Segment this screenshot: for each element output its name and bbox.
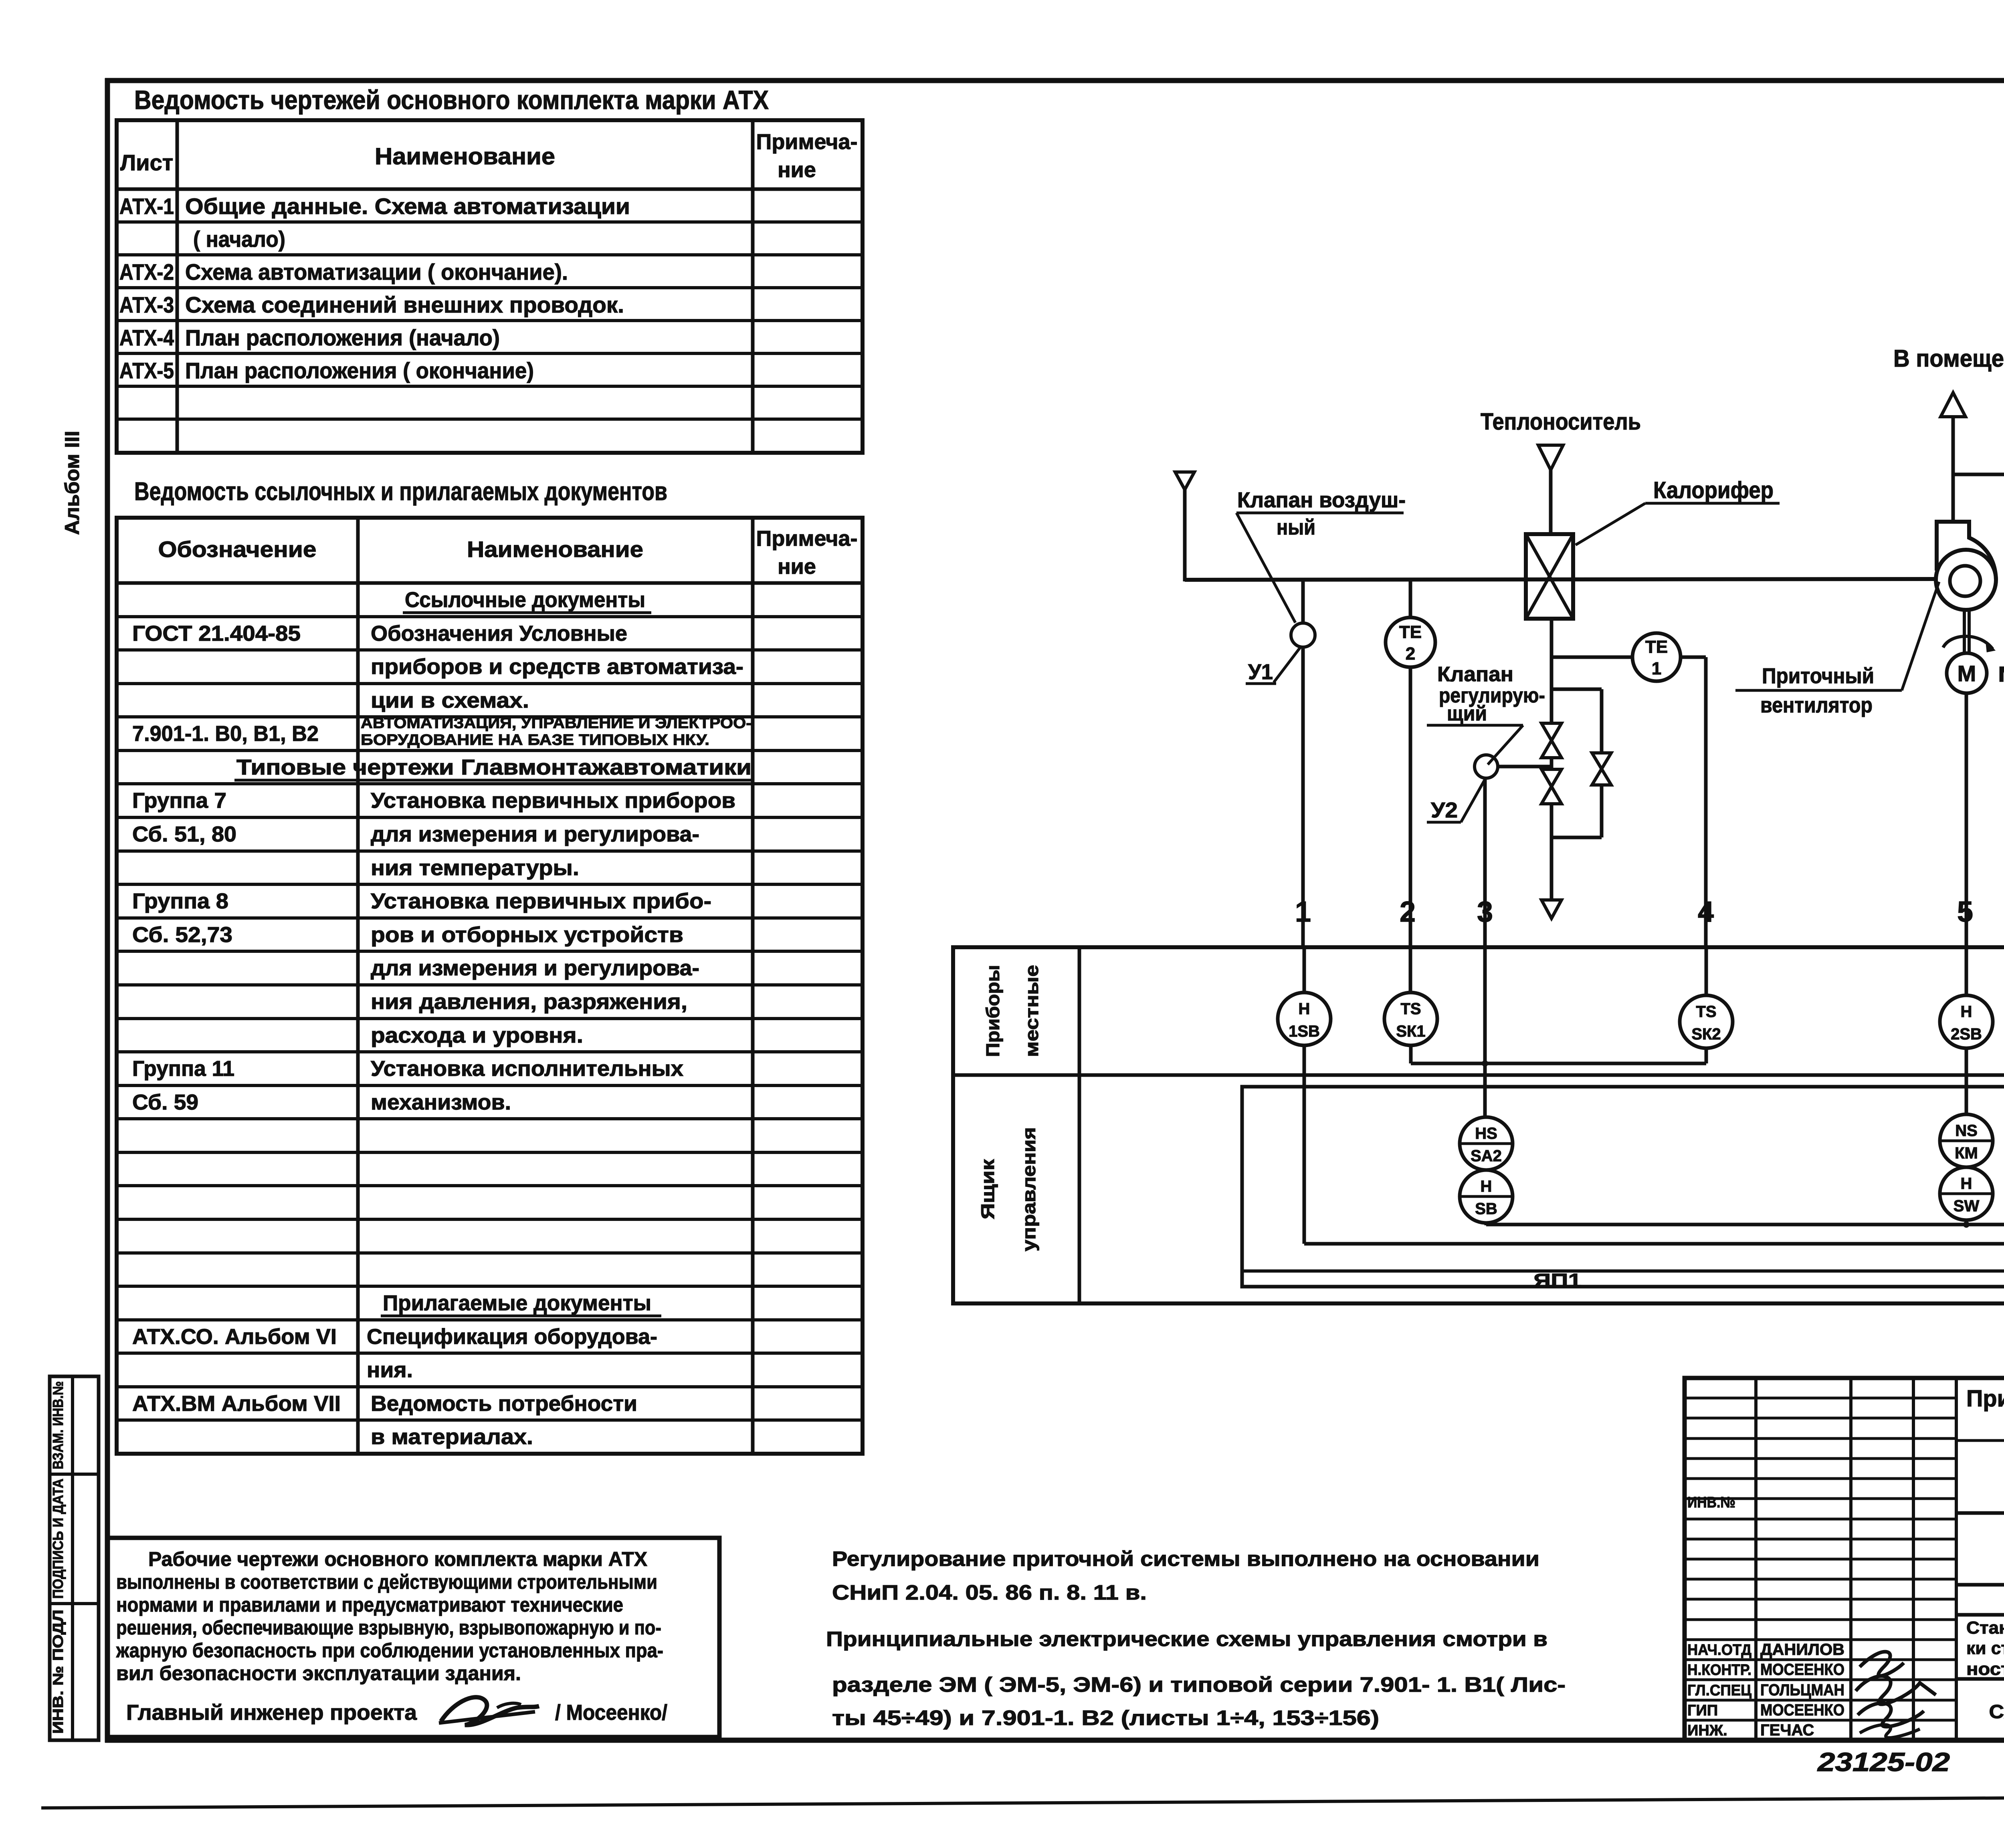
svg-text:1: 1 <box>1652 659 1661 678</box>
svg-text:расхода и уровня.: расхода и уровня. <box>371 1023 583 1047</box>
svg-text:местные: местные <box>1021 965 1042 1057</box>
svg-text:2: 2 <box>1406 644 1415 664</box>
svg-text:План расположения (начало): План расположения (начало) <box>185 325 500 350</box>
svg-text:2: 2 <box>1400 896 1416 928</box>
svg-text:решения, обеспечивающие взрыв: решения, обеспечивающие взрывную, взрыво… <box>116 1616 661 1639</box>
svg-text:ИНВ.№: ИНВ.№ <box>1687 1494 1735 1511</box>
svg-text:МОСЕЕНКО: МОСЕЕНКО <box>1760 1661 1844 1679</box>
svg-text:ние: ние <box>778 158 816 182</box>
svg-text:ТS: ТS <box>1400 1000 1421 1018</box>
svg-text:МП1: МП1 <box>1998 662 2004 686</box>
svg-text:Общие данные. Схема автоматиз: Общие данные. Схема автоматизации <box>185 194 630 219</box>
svg-text:Ведомость ссылочных и прила: Ведомость ссылочных и прилагаемых докуме… <box>134 477 667 506</box>
svg-text:Наименование: Наименование <box>375 143 555 169</box>
svg-text:ностью 400 м³/сутки: ностью 400 м³/сутки <box>1966 1659 2004 1679</box>
svg-text:Принципиальные электрические: Принципиальные электрические схемы управ… <box>826 1628 1547 1651</box>
svg-text:вентилятор: вентилятор <box>1760 693 1873 717</box>
svg-text:Приборы: Приборы <box>982 965 1003 1057</box>
svg-text:для измерения и регулирова-: для измерения и регулирова- <box>371 822 699 846</box>
svg-text:Клапан воздуш-: Клапан воздуш- <box>1237 488 1406 512</box>
svg-text:SВ: SВ <box>1475 1200 1497 1218</box>
svg-text:ТЕ: ТЕ <box>1645 637 1668 657</box>
svg-text:Ведомость чертежей основного: Ведомость чертежей основного комплекта м… <box>134 85 769 115</box>
svg-text:ИНВ. № ПОДЛ: ИНВ. № ПОДЛ <box>50 1610 66 1734</box>
svg-text:Спецификация оборудова-: Спецификация оборудова- <box>367 1325 657 1349</box>
svg-text:У2: У2 <box>1431 798 1458 822</box>
svg-text:NS: NS <box>1955 1122 1978 1140</box>
svg-text:АТХ-3: АТХ-3 <box>119 292 174 317</box>
svg-text:вил безопасности эксплуатаци: вил безопасности эксплуатации здания. <box>116 1662 521 1685</box>
svg-text:МОСЕЕНКО: МОСЕЕНКО <box>1760 1701 1844 1719</box>
svg-text:Сб. 59: Сб. 59 <box>132 1090 198 1114</box>
svg-text:ПОДПИСЬ И ДАТА: ПОДПИСЬ И ДАТА <box>50 1479 66 1599</box>
svg-text:Группа 7: Группа 7 <box>132 789 226 813</box>
svg-text:SК1: SК1 <box>1396 1023 1425 1040</box>
svg-text:ЯП1: ЯП1 <box>1533 1270 1582 1291</box>
svg-text:ты 45÷49) и 7.901-1. В2 (ли: ты 45÷49) и 7.901-1. В2 (листы 1÷4, 153÷… <box>832 1707 1379 1730</box>
svg-text:ГЛ.СПЕЦ: ГЛ.СПЕЦ <box>1687 1682 1751 1699</box>
svg-text:Н: Н <box>1481 1178 1492 1195</box>
svg-text:Группа 8: Группа 8 <box>132 889 228 913</box>
svg-text:ГОЛЬЦМАН: ГОЛЬЦМАН <box>1760 1681 1844 1699</box>
svg-text:SА2: SА2 <box>1471 1147 1502 1165</box>
svg-text:Приточный: Приточный <box>1762 664 1874 688</box>
svg-text:ный: ный <box>1277 515 1315 539</box>
svg-text:2SB: 2SB <box>1951 1025 1982 1043</box>
svg-text:СНиП 2.04. 05. 86 п. 8. 11: СНиП 2.04. 05. 86 п. 8. 11 в. <box>832 1581 1147 1604</box>
svg-text:План расположения ( окончание: План расположения ( окончание) <box>185 358 534 383</box>
svg-text:АТХ.ВМ Альбом VII: АТХ.ВМ Альбом VII <box>132 1392 341 1416</box>
svg-text:в материалах.: в материалах. <box>371 1425 533 1449</box>
svg-text:Обозначение: Обозначение <box>158 537 317 562</box>
svg-text:управления: управления <box>1018 1127 1039 1251</box>
svg-text:Установка первичных прибо-: Установка первичных прибо- <box>371 889 711 913</box>
svg-text:ров и отборных устройств: ров и отборных устройств <box>371 923 683 947</box>
svg-text:Ведомость потребности: Ведомость потребности <box>371 1392 637 1416</box>
svg-text:Примеча-: Примеча- <box>756 130 858 154</box>
svg-text:АТХ-4: АТХ-4 <box>119 325 174 350</box>
svg-text:Н: Н <box>1961 1175 1972 1192</box>
svg-text:механизмов.: механизмов. <box>371 1090 511 1114</box>
svg-text:Типовые чертежи Главмонтажав: Типовые чертежи Главмонтажавтоматики <box>236 755 751 779</box>
svg-text:Н: Н <box>1961 1003 1972 1021</box>
svg-text:Схема автоматизации: Схема автоматизации <box>1989 1701 2004 1723</box>
svg-text:ДАНИЛОВ: ДАНИЛОВ <box>1760 1641 1844 1658</box>
svg-text:Ящик: Ящик <box>977 1159 998 1219</box>
svg-text:ции в схемах.: ции в схемах. <box>371 688 529 712</box>
svg-text:ГЕЧАС: ГЕЧАС <box>1760 1721 1814 1739</box>
svg-text:ние: ние <box>778 555 816 579</box>
svg-text:Схема соединений внешних прово: Схема соединений внешних проводок. <box>185 292 624 317</box>
svg-text:КМ: КМ <box>1955 1144 1978 1162</box>
svg-text:Н: Н <box>1299 1000 1310 1018</box>
svg-text:3: 3 <box>1477 896 1493 928</box>
svg-text:Привязан: Привязан <box>1966 1386 2004 1412</box>
svg-text:SW: SW <box>1953 1197 1980 1215</box>
svg-text:У1: У1 <box>1248 660 1273 684</box>
svg-text:Установка исполнительных: Установка исполнительных <box>371 1057 683 1081</box>
svg-text:Теплоноситель: Теплоноситель <box>1481 409 1641 435</box>
svg-text:для измерения и регулирова-: для измерения и регулирова- <box>371 956 699 980</box>
svg-text:Наименование: Наименование <box>467 537 643 562</box>
svg-text:7.901-1. В0, В1, В2: 7.901-1. В0, В1, В2 <box>132 722 319 746</box>
svg-text:Схема автоматизации ( окончани: Схема автоматизации ( окончание). <box>185 259 568 284</box>
svg-text:АТХ-1: АТХ-1 <box>119 194 174 219</box>
svg-text:Альбом III: Альбом III <box>61 431 83 535</box>
svg-text:1: 1 <box>1295 896 1311 928</box>
svg-text:/ Мосеенко/: / Мосеенко/ <box>555 1701 667 1725</box>
svg-text:АВТОМАТИЗАЦИЯ, УПРАВЛЕНИЕ И ЭЛ: АВТОМАТИЗАЦИЯ, УПРАВЛЕНИЕ И ЭЛЕКТРОО- <box>361 715 751 732</box>
svg-text:Обозначения Условные: Обозначения Условные <box>371 621 627 646</box>
svg-text:ТS: ТS <box>1696 1003 1716 1021</box>
svg-text:М: М <box>1958 661 1976 686</box>
svg-text:ГОСТ 21.404-85: ГОСТ 21.404-85 <box>132 621 301 646</box>
svg-text:разделе ЭМ ( ЭМ-5, ЭМ-6) и: разделе ЭМ ( ЭМ-5, ЭМ-6) и типовой серии… <box>832 1673 1566 1697</box>
svg-text:ки сточных вод производител: ки сточных вод производитель- <box>1966 1638 2004 1658</box>
svg-text:23125-02: 23125-02 <box>1817 1747 1950 1777</box>
svg-text:ния.: ния. <box>367 1358 413 1382</box>
svg-text:( начало): ( начало) <box>193 226 285 252</box>
svg-text:1SB: 1SB <box>1289 1023 1320 1040</box>
svg-text:Главный инженер проекта: Главный инженер проекта <box>126 1701 417 1725</box>
svg-text:5: 5 <box>1957 896 1973 928</box>
svg-text:ГИП: ГИП <box>1687 1702 1718 1719</box>
svg-text:АТХ.СО. Альбом VI: АТХ.СО. Альбом VI <box>132 1325 337 1349</box>
svg-text:НS: НS <box>1475 1125 1497 1142</box>
svg-text:Ссылочные документы: Ссылочные документы <box>405 588 645 612</box>
svg-text:щий: щий <box>1447 702 1487 725</box>
svg-text:БОРУДОВАНИЕ НА БАЗЕ ТИПОВЫХ: БОРУДОВАНИЕ НА БАЗЕ ТИПОВЫХ НКУ. <box>361 732 709 748</box>
svg-text:Группа 11: Группа 11 <box>132 1057 234 1081</box>
svg-text:выполнены в соответствии с д: выполнены в соответствии с действующими … <box>116 1571 657 1593</box>
svg-text:НАЧ.ОТД: НАЧ.ОТД <box>1687 1642 1751 1658</box>
svg-text:Регулирование приточной сист: Регулирование приточной системы выполнен… <box>832 1547 1539 1571</box>
svg-text:Клапан: Клапан <box>1437 663 1513 686</box>
svg-text:Сб. 51, 80: Сб. 51, 80 <box>132 822 236 846</box>
svg-text:Сб. 52,73: Сб. 52,73 <box>132 923 232 947</box>
svg-text:Примеча-: Примеча- <box>756 527 858 551</box>
svg-text:ния температуры.: ния температуры. <box>371 856 579 880</box>
svg-text:Установка первичных приборов: Установка первичных приборов <box>371 789 735 813</box>
svg-text:жарную безопасность при соб: жарную безопасность при соблюдении устан… <box>116 1639 663 1662</box>
svg-text:Прилагаемые документы: Прилагаемые документы <box>383 1291 651 1315</box>
svg-text:В помещение: В помещение <box>1893 345 2004 372</box>
svg-text:Станция биологической очист-: Станция биологической очист- <box>1966 1618 2004 1638</box>
svg-text:Н.КОНТР.: Н.КОНТР. <box>1687 1662 1751 1679</box>
svg-text:ТЕ: ТЕ <box>1399 622 1422 642</box>
svg-text:нормами и правилами и пред: нормами и правилами и предусматривают те… <box>116 1594 623 1616</box>
svg-text:4: 4 <box>1698 896 1714 928</box>
svg-text:ния давления, разряжения,: ния давления, разряжения, <box>371 990 687 1014</box>
svg-text:АТХ-5: АТХ-5 <box>119 358 174 383</box>
svg-text:Рабочие чертежи основного: Рабочие чертежи основного комплекта марк… <box>148 1548 647 1570</box>
svg-text:Лист: Лист <box>120 150 173 175</box>
svg-text:приборов и средств автоматиза: приборов и средств автоматиза- <box>371 655 743 679</box>
svg-text:АТХ-2: АТХ-2 <box>119 259 174 284</box>
svg-text:ВЗАМ. ИНВ.№: ВЗАМ. ИНВ.№ <box>50 1381 66 1469</box>
svg-text:Калорифер: Калорифер <box>1653 477 1774 503</box>
svg-text:SК2: SК2 <box>1691 1025 1721 1043</box>
svg-text:ИНЖ.: ИНЖ. <box>1687 1722 1727 1739</box>
